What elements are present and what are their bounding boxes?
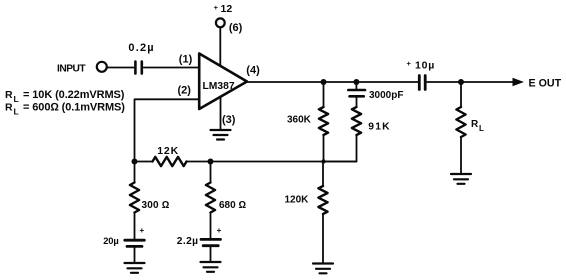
- ground 20u: [125, 263, 145, 273]
- svg-text:12: 12: [221, 3, 233, 15]
- op-amp U1 LM387 triangle: [199, 54, 247, 110]
- ground 2.2u: [201, 262, 221, 272]
- terminal V+ circle: [216, 18, 225, 27]
- capacitor C 20u: [125, 240, 145, 246]
- svg-text:(3): (3): [222, 114, 236, 126]
- pin 1 label: [179, 54, 193, 66]
- resistor RL label: [471, 119, 484, 133]
- terminal input circle: [97, 62, 107, 72]
- svg-text:L: L: [14, 106, 19, 116]
- junction output/3000pF: [353, 79, 359, 85]
- resistor 360K: [319, 107, 328, 135]
- resistor 680 ohm: [206, 183, 215, 213]
- svg-text:LM387: LM387: [203, 81, 235, 92]
- capacitor C2 10u output coupling: [419, 76, 425, 90]
- svg-text:680 Ω: 680 Ω: [219, 200, 246, 211]
- svg-text:= 10K (0.22mVRMS): = 10K (0.22mVRMS): [23, 89, 125, 101]
- junction output/360K: [321, 79, 327, 85]
- capacitor C1 0.2u: [135, 62, 141, 74]
- node E OUT label: [529, 78, 562, 90]
- resistor 300 ohm value label: [142, 200, 170, 211]
- wire pin 3 stub: [220, 97, 222, 131]
- capacitor C3 value 3000pF label: [369, 90, 403, 101]
- note RL output noise annotation line 2: [5, 101, 125, 116]
- svg-text:+: +: [140, 226, 145, 235]
- resistor R 12K: [153, 157, 187, 166]
- svg-text:INPUT: INPUT: [57, 64, 86, 75]
- node V+ +12 supply label: [214, 3, 233, 15]
- junction feedback/300ohm: [132, 159, 138, 165]
- wire 300ohm to C 20u: [134, 213, 136, 240]
- wire 680ohm to C 2.2u: [210, 213, 212, 239]
- capacitor C 2.2u value label: [177, 236, 199, 247]
- wire 120K to ground: [322, 214, 324, 264]
- svg-text:20µ: 20µ: [103, 235, 118, 246]
- wire 680ohm top stub: [210, 162, 212, 183]
- svg-text:E OUT: E OUT: [529, 78, 562, 90]
- svg-text:+: +: [407, 59, 412, 68]
- resistor 120K: [322, 162, 324, 187]
- svg-text:3000pF: 3000pF: [369, 90, 403, 101]
- resistor 300 ohm: [130, 183, 139, 213]
- resistor 120K value label: [285, 195, 310, 206]
- wire pin 2 to feedback corner: [135, 99, 200, 161]
- wire C2 to RL junction: [427, 81, 461, 83]
- wire C 2.2u to ground: [210, 247, 212, 262]
- wire V+ to op-amp top: [219, 27, 221, 66]
- svg-text:2.2µ: 2.2µ: [177, 236, 199, 247]
- svg-text:(2): (2): [178, 85, 192, 97]
- wire 360K bottom to feedback rail: [323, 135, 325, 162]
- svg-text:R: R: [5, 101, 13, 113]
- svg-text:(6): (6): [229, 22, 243, 34]
- capacitor C 2.2u: [201, 239, 221, 245]
- ground op-amp pin 3: [211, 130, 231, 140]
- svg-text:91K: 91K: [368, 122, 391, 133]
- note RL output noise annotation line 1: [5, 89, 125, 104]
- wire 360K top stub: [323, 82, 325, 107]
- svg-text:+: +: [214, 3, 219, 12]
- resistor RL load: [456, 107, 465, 137]
- junction feedback/360K-120K: [321, 159, 325, 163]
- svg-text:300 Ω: 300 Ω: [142, 200, 170, 211]
- svg-text:L: L: [14, 94, 19, 104]
- wire RL to ground: [460, 137, 462, 174]
- junction output/RL: [458, 79, 464, 85]
- ground 120K: [313, 264, 333, 274]
- wire E OUT arrow: [461, 81, 515, 83]
- wire C 20u to ground: [134, 248, 136, 264]
- svg-text:R: R: [471, 119, 479, 130]
- svg-text:(4): (4): [246, 65, 260, 77]
- svg-text:360K: 360K: [287, 115, 312, 126]
- resistor 91K: [352, 107, 361, 135]
- wire RL top stub: [460, 82, 462, 107]
- wire feedback rail right segment: [187, 161, 357, 163]
- wire 91K bottom to feedback rail: [324, 135, 357, 162]
- capacitor C2 polarity plus and value label: [407, 59, 436, 72]
- svg-text:L: L: [479, 124, 484, 133]
- resistor 91K value label: [368, 122, 391, 133]
- resistor 12K value label: [157, 145, 179, 157]
- resistor 680 ohm value label: [219, 200, 246, 211]
- wire 300ohm top stub: [134, 162, 136, 183]
- svg-text:10µ: 10µ: [415, 60, 435, 72]
- capacitor C3 stub wires: [355, 82, 357, 89]
- pin 4 label: [246, 65, 260, 77]
- op-amp U1 name label: [203, 81, 235, 92]
- capacitor C 2.2u polarity plus: [217, 226, 222, 235]
- svg-text:(1): (1): [179, 54, 193, 66]
- wire input terminal to C1: [107, 67, 134, 69]
- capacitor C3 3000pF: [348, 90, 365, 96]
- capacitor C 20u value label: [103, 235, 118, 246]
- resistor 360K value label: [287, 115, 312, 126]
- wire feedback rail left segment: [135, 161, 153, 163]
- pin 3 label: [222, 114, 236, 126]
- capacitor C1 value 0.2u label: [128, 42, 154, 54]
- svg-text:0.2µ: 0.2µ: [128, 42, 154, 54]
- junction feedback/680ohm: [208, 159, 214, 165]
- ground RL: [451, 174, 471, 184]
- wire C1 to pin 1: [144, 67, 199, 69]
- svg-text:+: +: [217, 226, 222, 235]
- capacitor C 20u polarity plus: [140, 226, 145, 235]
- svg-text:R: R: [5, 89, 13, 101]
- wire output rail from apex: [246, 81, 418, 83]
- svg-text:120K: 120K: [285, 195, 310, 206]
- node INPUT label: [57, 64, 86, 75]
- svg-text:12K: 12K: [157, 145, 179, 157]
- svg-text:= 600Ω (0.1mVRMS): = 600Ω (0.1mVRMS): [23, 101, 125, 113]
- pin 2 label: [178, 85, 192, 97]
- pin 6 label: [229, 22, 243, 34]
